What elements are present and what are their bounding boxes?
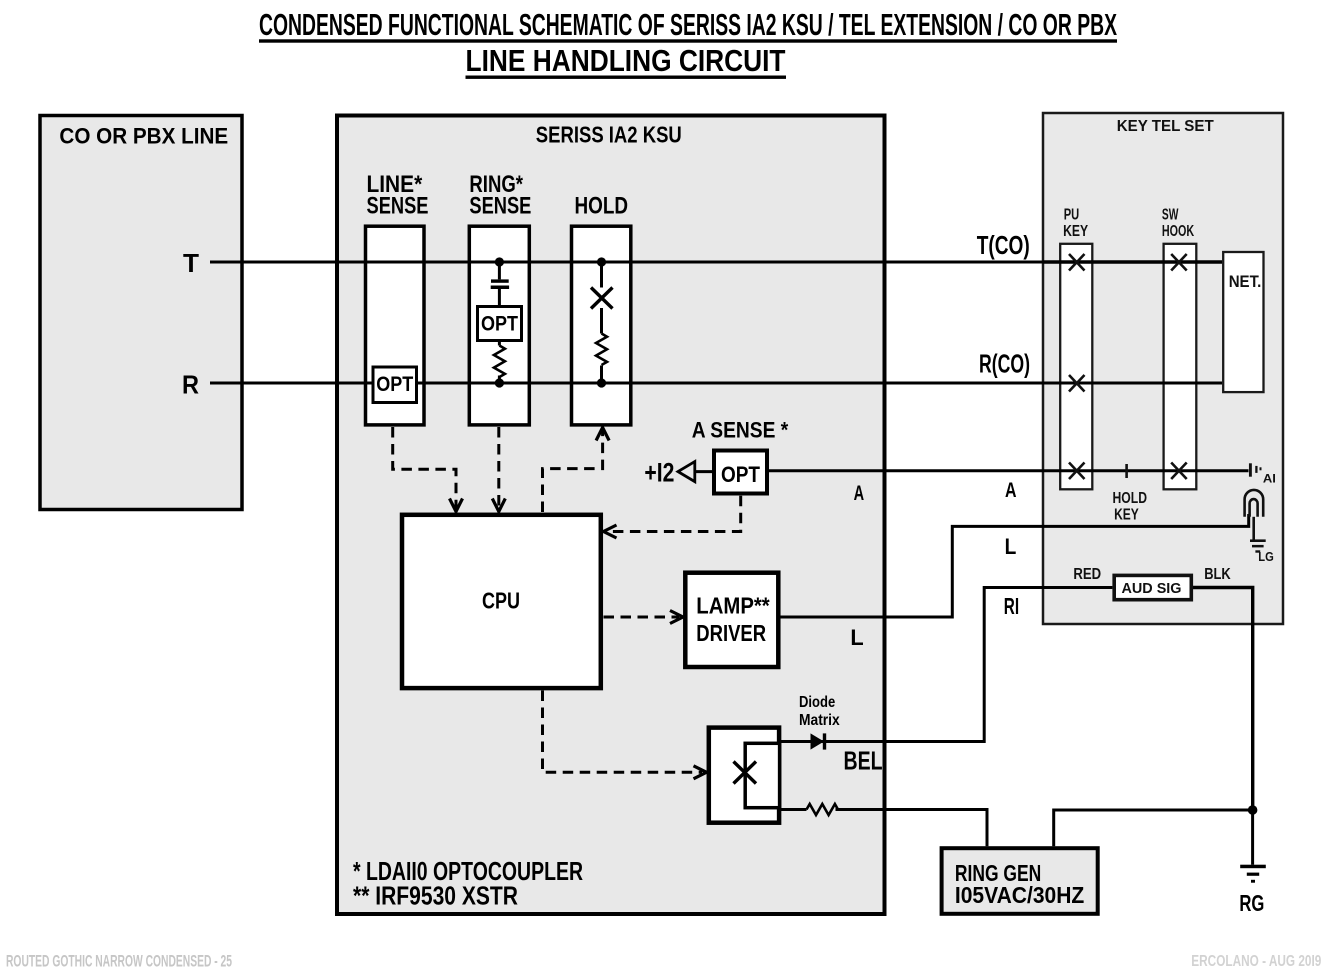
svg-text:HOLD: HOLD — [1113, 490, 1148, 507]
svg-text:AI: AI — [1263, 472, 1276, 486]
svg-text:Diode: Diode — [799, 694, 835, 711]
svg-text:SENSE: SENSE — [367, 193, 429, 220]
svg-text:BLK: BLK — [1204, 566, 1231, 583]
svg-text:A: A — [854, 482, 865, 505]
svg-text:T(CO): T(CO) — [977, 230, 1030, 260]
svg-text:HOOK: HOOK — [1162, 223, 1195, 240]
svg-text:L: L — [1005, 534, 1017, 559]
svg-text:LAMP**: LAMP** — [696, 593, 770, 619]
svg-text:SERISS IA2 KSU: SERISS IA2 KSU — [536, 122, 682, 148]
svg-text:BEL: BEL — [844, 746, 883, 776]
svg-text:NET.: NET. — [1229, 272, 1262, 291]
svg-text:A: A — [1005, 479, 1017, 502]
svg-text:SW: SW — [1162, 207, 1179, 224]
svg-text:RI: RI — [1004, 593, 1019, 619]
svg-text:AUD SIG: AUD SIG — [1122, 581, 1182, 597]
svg-text:A SENSE *: A SENSE * — [692, 418, 789, 443]
svg-text:KEY TEL SET: KEY TEL SET — [1117, 118, 1214, 135]
svg-text:RG: RG — [1239, 890, 1264, 916]
svg-text:KEY: KEY — [1063, 223, 1089, 240]
svg-text:RED: RED — [1073, 566, 1101, 583]
svg-text:** IRF9530 XSTR: ** IRF9530 XSTR — [353, 881, 518, 911]
svg-text:ERCOLANO - AUG 20I9: ERCOLANO - AUG 20I9 — [1191, 953, 1321, 970]
svg-text:L: L — [850, 625, 863, 650]
svg-text:CONDENSED FUNCTIONAL SCHEMATIC: CONDENSED FUNCTIONAL SCHEMATIC OF SERISS… — [259, 7, 1117, 42]
svg-text:OPT: OPT — [376, 373, 413, 396]
svg-text:CPU: CPU — [482, 588, 520, 614]
svg-text:ROUTED GOTHIC NARROW CONDENSED: ROUTED GOTHIC NARROW CONDENSED - 25 — [6, 953, 232, 971]
svg-text:OPT: OPT — [721, 462, 760, 487]
svg-text:LINE HANDLING CIRCUIT: LINE HANDLING CIRCUIT — [466, 43, 786, 78]
svg-text:CO OR PBX LINE: CO OR PBX LINE — [59, 123, 228, 148]
svg-text:R(CO): R(CO) — [979, 349, 1030, 379]
svg-text:+I2: +I2 — [644, 458, 674, 488]
svg-text:OPT: OPT — [481, 313, 518, 336]
svg-text:DRIVER: DRIVER — [696, 620, 766, 646]
svg-text:Matrix: Matrix — [799, 712, 840, 729]
svg-text:KEY: KEY — [1114, 506, 1139, 523]
svg-text:PU: PU — [1064, 207, 1080, 224]
svg-text:LG: LG — [1258, 549, 1274, 564]
svg-text:T: T — [183, 248, 199, 278]
svg-text:I05VAC/30HZ: I05VAC/30HZ — [955, 882, 1084, 908]
svg-text:R: R — [182, 370, 199, 400]
svg-text:HOLD: HOLD — [575, 193, 629, 220]
svg-text:SENSE: SENSE — [469, 193, 531, 220]
